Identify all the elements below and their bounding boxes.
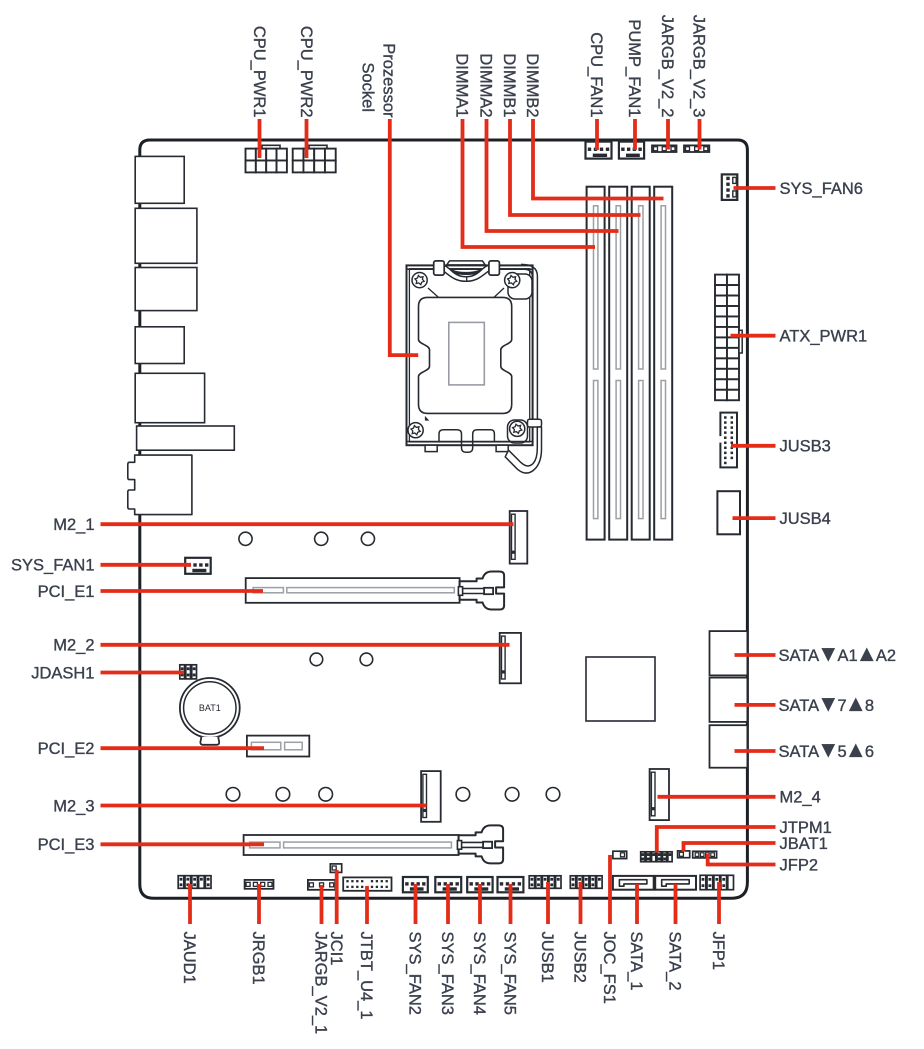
- label SYS_FAN3: [438, 932, 456, 1015]
- callout DIMMB1: [510, 119, 641, 215]
- label CPU_PWR1: [250, 26, 268, 118]
- rear IO block 6 (wide): [137, 426, 235, 450]
- rear IO block 1: [135, 156, 184, 203]
- label JFP2: [780, 856, 819, 874]
- label SATA_2: [666, 932, 684, 991]
- svg-text:JOC_FS1: JOC_FS1: [600, 932, 618, 1004]
- callout SATA A1 A2: [735, 653, 776, 657]
- label SATA 7 8: [779, 691, 875, 716]
- svg-text:JAUD1: JAUD1: [180, 932, 198, 984]
- callout JTPM1: [657, 827, 776, 853]
- callout ATX_PWR1: [731, 334, 776, 338]
- label ATX_PWR1: [780, 327, 868, 345]
- CPU_PWR1 8-pin connector: [246, 145, 287, 172]
- svg-text:JTBT_U4_1: JTBT_U4_1: [357, 932, 375, 1020]
- label M2_3: [53, 797, 94, 815]
- SATA_1 connector: [613, 876, 654, 890]
- callout SYS_FAN1: [101, 563, 192, 567]
- SYS_FAN4 header: [467, 877, 492, 892]
- motherboard PCB outline: [140, 140, 748, 898]
- label JDASH1: [31, 664, 94, 682]
- SYS_FAN2 header: [403, 877, 428, 892]
- label JOC_FS1: [600, 932, 618, 1004]
- callout M2_1: [101, 522, 514, 526]
- svg-text:SYS_FAN5: SYS_FAN5: [501, 932, 519, 1015]
- JTPM1 header: [641, 852, 672, 862]
- callout DIMMA1: [463, 119, 596, 247]
- JAUD1 header: [178, 876, 211, 889]
- SYS_FAN5 header: [498, 877, 524, 892]
- label DIMMB2: [523, 53, 541, 117]
- svg-text:JCI1: JCI1: [327, 932, 345, 966]
- label JARGB_V2_2: [658, 15, 676, 118]
- callout CPU_PWR1: [258, 119, 262, 158]
- label DIMMA1: [453, 53, 471, 117]
- svg-text:PUMP_FAN1: PUMP_FAN1: [625, 19, 643, 117]
- label PUMP_FAN1: [625, 19, 643, 117]
- JFP2 header: [693, 851, 717, 858]
- DIMMB1 memory slot: [632, 187, 650, 540]
- PCI_E3 x16 slot: [244, 825, 504, 863]
- svg-text:BAT1: BAT1: [199, 703, 221, 713]
- JCI1 header: [330, 864, 341, 873]
- label SATA A1 A2: [779, 641, 897, 666]
- SYS_FAN3 header: [435, 877, 461, 892]
- rear IO block 5: [135, 373, 204, 422]
- svg-text:DIMMB2: DIMMB2: [523, 53, 541, 117]
- JUSB2 header: [570, 876, 602, 889]
- svg-text:JARGB_V2_3: JARGB_V2_3: [690, 15, 708, 118]
- callout SYS_FAN3: [446, 884, 450, 924]
- PUMP_FAN1 header: [619, 142, 644, 159]
- label JARGB_V2_3: [690, 15, 708, 118]
- CPU_FAN1 header: [586, 142, 612, 159]
- callout PCI_E2: [101, 746, 265, 750]
- svg-text:SYS_FAN6: SYS_FAN6: [780, 180, 863, 198]
- callout JDASH1: [101, 671, 185, 675]
- svg-text:M2_3: M2_3: [53, 797, 94, 815]
- label SATA_1: [627, 932, 645, 991]
- PCI_E1 x16 slot: [246, 572, 504, 610]
- M2_2 M.2 slot: [500, 633, 521, 683]
- label PCI_E2: [38, 740, 95, 758]
- svg-text:JRGB1: JRGB1: [249, 932, 267, 985]
- DIMMA1 memory slot: [587, 187, 605, 540]
- callout SYS_FAN6: [734, 186, 776, 190]
- svg-text:SYS_FAN4: SYS_FAN4: [470, 932, 488, 1015]
- CPU_PWR2 8-pin connector: [293, 145, 336, 172]
- ATX_PWR1 24-pin connector: [715, 275, 742, 401]
- screw holes row 3: [226, 788, 560, 802]
- callout JUSB4: [733, 516, 776, 520]
- svg-text:JARGB_V2_2: JARGB_V2_2: [658, 15, 676, 118]
- SATA 5/6 connector block: [710, 725, 748, 768]
- M2_3 M.2 slot: [421, 771, 441, 822]
- svg-text:Prozessor: Prozessor: [380, 43, 398, 118]
- callout JCI1: [335, 870, 339, 924]
- JRGB1 header: [245, 880, 274, 889]
- svg-text:DIMMA2: DIMMA2: [477, 53, 495, 117]
- svg-text:M2_4: M2_4: [780, 789, 821, 807]
- label JRGB1: [249, 932, 267, 985]
- svg-text:JUSB4: JUSB4: [780, 510, 831, 528]
- svg-text:CPU_PWR2: CPU_PWR2: [297, 26, 315, 118]
- SATA A1/A2 connector block: [710, 631, 748, 675]
- JTBT_U4_1 header: [343, 877, 391, 890]
- label JTBT_U4_1: [357, 932, 375, 1020]
- svg-text:DIMMB1: DIMMB1: [500, 53, 518, 117]
- callout JARGB_V2_3: [698, 119, 702, 150]
- JDASH1 header: [180, 665, 197, 679]
- callout JFP1: [717, 882, 721, 924]
- svg-text:SATA_2: SATA_2: [666, 932, 684, 991]
- callout SYS_FAN2: [414, 884, 418, 924]
- label JARGB_V2_1: [312, 932, 330, 1035]
- callout M2_3: [101, 804, 427, 808]
- label JUSB4: [780, 510, 831, 528]
- JUSB4 USB-C header: [717, 491, 740, 534]
- callout Prozessor Sockel: [390, 119, 418, 355]
- svg-text:M2_2: M2_2: [53, 637, 94, 655]
- JOC_FS1 header: [613, 851, 627, 858]
- svg-text:M2_1: M2_1: [53, 516, 94, 534]
- screw holes row 1: [239, 532, 375, 545]
- JBAT1 jumper: [678, 851, 690, 858]
- callout JAUD1: [188, 884, 192, 924]
- callout SATA_1: [635, 884, 639, 924]
- svg-text:JBAT1: JBAT1: [780, 835, 828, 853]
- callout JTBT_U4_1: [365, 886, 369, 924]
- label JUSB1: [538, 932, 556, 983]
- svg-text:JUSB1: JUSB1: [538, 932, 556, 983]
- JARGB_V2_1 header: [308, 880, 335, 890]
- rear IO block 3: [135, 268, 197, 311]
- svg-text:CPU_PWR1: CPU_PWR1: [250, 26, 268, 118]
- svg-text:Sockel: Sockel: [359, 62, 377, 112]
- svg-text:CPU_FAN1: CPU_FAN1: [587, 32, 605, 117]
- callout SATA 7 8: [735, 703, 776, 707]
- svg-text:PCI_E2: PCI_E2: [38, 740, 95, 758]
- svg-text:SATA_1: SATA_1: [627, 932, 645, 991]
- label M2_4: [780, 789, 821, 807]
- label PCI_E3: [38, 836, 95, 854]
- JUSB1 header: [529, 876, 561, 889]
- label M2_2: [53, 637, 94, 655]
- label DIMMA2: [477, 53, 495, 117]
- svg-text:SATA▼5▲6: SATA▼5▲6: [779, 737, 875, 762]
- label SATA 5 6: [779, 737, 875, 762]
- label CPU_FAN1: [587, 32, 605, 117]
- label DIMMB1: [500, 53, 518, 117]
- svg-text:DIMMA1: DIMMA1: [453, 53, 471, 117]
- callout SYS_FAN4: [478, 884, 482, 924]
- SYS_FAN6 header: [722, 174, 738, 200]
- JARGB_V2_2 header: [652, 145, 677, 152]
- svg-text:SATA▼A1▲A2: SATA▼A1▲A2: [779, 641, 897, 666]
- label JFP1: [709, 932, 727, 971]
- label M2_1: [53, 516, 94, 534]
- label SYS_FAN5: [501, 932, 519, 1015]
- label SYS_FAN4: [470, 932, 488, 1015]
- callout CPU_FAN1: [595, 119, 599, 150]
- label CPU_PWR2: [297, 26, 315, 118]
- callout JBAT1: [684, 843, 776, 852]
- callout JUSB2: [579, 882, 583, 924]
- callout M2_2: [101, 643, 510, 647]
- SATA_2 connector: [655, 876, 696, 890]
- callout JARGB_V2_2: [666, 119, 670, 150]
- svg-text:JFP2: JFP2: [780, 856, 819, 874]
- svg-text:JUSB2: JUSB2: [571, 932, 589, 983]
- svg-text:ATX_PWR1: ATX_PWR1: [780, 327, 868, 345]
- callout CPU_PWR2: [305, 119, 309, 158]
- svg-text:SYS_FAN1: SYS_FAN1: [11, 557, 94, 575]
- svg-text:JUSB3: JUSB3: [780, 438, 831, 456]
- callout SATA_2: [674, 884, 678, 924]
- label JUSB2: [571, 932, 589, 983]
- label JUSB3: [780, 438, 831, 456]
- label SYS_FAN1: [11, 557, 94, 575]
- callout DIMMB2: [533, 119, 664, 199]
- JFP1 header: [700, 875, 733, 889]
- rear IO block 4: [135, 327, 184, 364]
- label JCI1: [327, 932, 345, 966]
- label JTPM1: [780, 819, 832, 837]
- SATA 7/8 connector block: [710, 678, 748, 722]
- label Prozessor Sockel: [359, 43, 398, 118]
- M2_4 M.2 slot: [650, 769, 669, 820]
- label JBAT1: [780, 835, 828, 853]
- PCI_E2 x1 slot: [247, 736, 309, 757]
- svg-text:JFP1: JFP1: [709, 932, 727, 971]
- JARGB_V2_3 header: [684, 145, 709, 152]
- rear IO audio jacks block: [128, 455, 192, 514]
- label PCI_E1: [38, 583, 95, 601]
- rear IO block 2: [135, 208, 197, 263]
- JUSB3 USB header: [719, 413, 737, 468]
- callout JOC_FS1: [608, 855, 612, 924]
- callout SYS_FAN5: [509, 884, 513, 924]
- screw holes row 2: [310, 653, 373, 666]
- svg-text:JDASH1: JDASH1: [31, 664, 94, 682]
- callout JUSB1: [546, 882, 550, 924]
- M2_1 M.2 slot: [510, 511, 528, 564]
- callout DIMMA2: [487, 119, 619, 231]
- svg-text:SATA▼7▲8: SATA▼7▲8: [779, 691, 875, 716]
- callout PCI_E1: [101, 589, 264, 593]
- callout PCI_E3: [101, 842, 265, 846]
- callout PUMP_FAN1: [633, 119, 637, 150]
- PCH chip: [586, 657, 655, 721]
- callout JRGB1: [257, 884, 261, 924]
- BAT1 battery: [180, 678, 240, 745]
- DIMMA2 memory slot: [609, 187, 627, 540]
- svg-text:SYS_FAN2: SYS_FAN2: [406, 932, 424, 1015]
- svg-text:PCI_E1: PCI_E1: [38, 583, 95, 601]
- callout JFP2: [708, 854, 776, 865]
- label SYS_FAN2: [406, 932, 424, 1015]
- callout JARGB_V2_1: [320, 885, 324, 924]
- svg-text:SYS_FAN3: SYS_FAN3: [438, 932, 456, 1015]
- DIMMB2 memory slot: [654, 187, 672, 540]
- CPU socket (LGA): [407, 261, 542, 473]
- label SYS_FAN6: [780, 180, 863, 198]
- label JAUD1: [180, 932, 198, 984]
- svg-text:PCI_E3: PCI_E3: [38, 836, 95, 854]
- SYS_FAN1 header: [185, 558, 211, 574]
- callout M2_4: [658, 795, 776, 799]
- callout SATA 5 6: [735, 749, 776, 753]
- callout JUSB3: [731, 444, 776, 448]
